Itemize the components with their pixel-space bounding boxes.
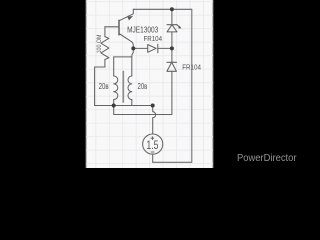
svg-text:20в: 20в xyxy=(138,82,148,91)
svg-text:100 OM: 100 OM xyxy=(96,35,103,54)
svg-text:20в: 20в xyxy=(99,82,109,91)
svg-text:FR104: FR104 xyxy=(144,34,163,43)
svg-text:FR104: FR104 xyxy=(182,63,201,72)
svg-text:1.5: 1.5 xyxy=(146,138,158,152)
